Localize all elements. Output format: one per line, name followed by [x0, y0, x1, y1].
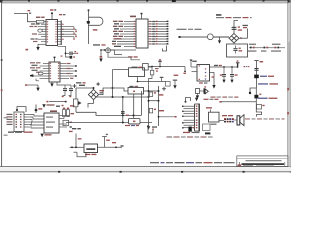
label under J2	[128, 56, 138, 57]
label above bridge	[79, 85, 85, 86]
cap C7 inside U7	[233, 46, 242, 54]
U1 pin numbers	[47, 21, 57, 42]
polarity stub with arrow	[218, 37, 221, 44]
resistor R1	[36, 17, 45, 23]
ICSP pads	[182, 106, 197, 129]
wire to decoupling caps	[57, 82, 71, 85]
microcontroller U2 body	[130, 13, 148, 48]
pullup stub T	[158, 59, 162, 67]
U8 ground branch	[210, 73, 216, 89]
ground hook under J2	[163, 46, 167, 52]
ladder junction dots	[148, 90, 160, 102]
bottom note dashed text	[167, 136, 213, 137]
power input wire with fuse F1	[179, 34, 230, 40]
op-amp feed resistor RV1	[69, 128, 81, 147]
power stub of U1	[50, 9, 56, 19]
sheet background	[0, 0, 291, 173]
DC-DC module B2	[125, 115, 140, 127]
note text top right of U2	[216, 14, 252, 18]
dotted net text mid right	[211, 97, 239, 98]
capacitor C9	[230, 67, 238, 83]
U8 caption	[199, 82, 207, 83]
ground under U1	[26, 44, 47, 50]
ground under ladder	[147, 126, 157, 130]
filter rail wire	[210, 60, 240, 68]
TP label above U4 right	[56, 105, 74, 107]
input arrow into U3	[30, 74, 33, 77]
ICSP bottom caption	[183, 132, 200, 133]
resistor pair R3 R4	[63, 108, 74, 117]
resistor R10	[257, 105, 265, 110]
MCU U1 body	[46, 20, 58, 46]
staircase wire to U2 bottom	[108, 50, 140, 60]
rail outgoing wires	[61, 27, 76, 39]
stub with cap T2	[160, 77, 164, 82]
wires around B1	[66, 88, 159, 123]
buzzer connector pads	[219, 115, 237, 122]
resistor R7	[149, 108, 164, 113]
connector rail right of U1	[60, 21, 62, 46]
U4 right pins upper	[59, 116, 70, 128]
jumper row top right	[248, 44, 285, 52]
U3 left pins	[33, 64, 49, 81]
ladder output branch	[158, 116, 177, 118]
U2 left pin numbers	[134, 21, 135, 47]
connector J3	[14, 112, 24, 132]
header J2 pad dots	[156, 21, 168, 45]
resistor R11	[149, 67, 159, 87]
U1 left pins	[38, 24, 46, 42]
U1 right pins	[58, 22, 61, 45]
diode D2 labels	[240, 25, 248, 39]
plus mark and DC label	[76, 82, 100, 86]
ICSP header rungs	[184, 106, 195, 128]
U6 input wires	[70, 147, 87, 157]
wire net from left border to U1	[14, 14, 37, 22]
input cap C6 on vertical	[232, 21, 242, 34]
J3 pad dots	[16, 114, 22, 128]
U2 left pins	[117, 22, 136, 47]
down arrow into U4	[42, 104, 54, 108]
J3 left labels	[7, 114, 13, 125]
sense network box K1	[143, 64, 152, 71]
sense wire end hook	[183, 67, 186, 74]
aux box U5	[206, 107, 219, 125]
crystal Y2	[38, 72, 43, 75]
junction diamond node	[34, 105, 42, 114]
capacitor C8	[220, 67, 226, 83]
bridge rectifier D1	[88, 90, 98, 100]
rail pad dots	[62, 24, 63, 40]
node label above input wire	[28, 10, 32, 14]
power rail top wires	[76, 88, 128, 95]
buzzer LS1	[237, 115, 244, 126]
U3 left net labels	[30, 62, 40, 73]
end jog wire	[256, 109, 261, 116]
electrolytic cap C10	[188, 127, 194, 132]
vreg chain top	[254, 61, 263, 89]
header J2 double-row bars	[158, 22, 168, 45]
right margin strip	[287, 0, 290, 173]
net wire with endpoint dots	[46, 101, 66, 103]
bottom drawing edge line	[0, 167, 291, 173]
op-amp U6	[84, 144, 98, 155]
K3 junction	[137, 81, 139, 83]
spare box outline	[203, 124, 211, 134]
top window edge bar	[0, 0, 291, 3]
U3 pin numbers	[50, 63, 59, 79]
comparator U8	[190, 60, 210, 82]
U3 right pads and labels	[67, 63, 77, 79]
regulator module B1	[128, 86, 144, 94]
released-under license text line	[150, 162, 235, 163]
protection diode D2 (diamond)	[229, 34, 239, 43]
module box U7	[227, 43, 248, 57]
pull-up R8	[102, 134, 110, 148]
wire under U2	[101, 50, 136, 59]
U2 left net labels	[112, 21, 123, 47]
relay module K3	[129, 67, 145, 77]
ground under C3	[99, 56, 102, 62]
Y stub with ground	[173, 75, 178, 89]
wire R1 to U1	[44, 21, 46, 23]
net label near U1 rail top	[59, 14, 65, 15]
U2 right pins	[148, 22, 158, 45]
barrel jack J4	[74, 88, 82, 112]
cap marks on rail	[121, 111, 125, 114]
wire bundle J3 to U4	[30, 115, 44, 129]
U6 output wire	[98, 142, 124, 148]
hook to test pad	[249, 83, 278, 94]
U2 right pin numbers	[149, 21, 150, 45]
sense bus wire	[148, 66, 185, 68]
sheet border frame	[0, 3, 291, 167]
junction dots under U2	[100, 49, 105, 51]
capacitor C2 blob	[61, 56, 76, 59]
LED D3 blob	[254, 75, 274, 79]
polarized cap C3 (round)	[106, 47, 111, 53]
wire hook bottom middle	[147, 125, 154, 133]
bridge labels	[100, 90, 104, 93]
ground arrow under U3 body	[50, 82, 53, 87]
crystal Y1	[38, 29, 42, 32]
U8 pin dots	[199, 65, 207, 80]
shift register U3 body	[49, 57, 60, 82]
resistor ladder rails	[149, 86, 159, 126]
vreg chain lower	[254, 88, 277, 109]
resistor R6	[149, 92, 163, 96]
capacitor C5	[69, 85, 74, 97]
title block	[237, 156, 288, 167]
wire from D2 to VIN	[239, 29, 248, 39]
ground under U4	[40, 134, 51, 138]
small box K2	[166, 82, 171, 87]
junction dot bridge top	[93, 87, 114, 89]
J3 caption text	[8, 132, 33, 133]
plus symbol node	[162, 87, 166, 91]
dashed net line from buzzer	[245, 118, 285, 119]
ground left under U3	[25, 84, 40, 91]
net label dots	[244, 66, 250, 67]
text receives 5V	[177, 29, 202, 30]
antenna loop symbol	[87, 9, 106, 45]
J3 pin rows	[24, 115, 30, 128]
capacitor C1	[65, 51, 79, 55]
junction dots power	[112, 96, 150, 124]
U1 left net labels	[30, 23, 40, 42]
ICSP header block rails	[195, 104, 200, 132]
stub wire with pad	[219, 101, 256, 103]
plus sign near bridge	[73, 84, 77, 88]
rail wire end pads	[73, 28, 77, 39]
left border tick marks	[1, 59, 8, 136]
phone jack J5	[196, 86, 209, 99]
U3 right pins	[60, 64, 76, 79]
wire curl above J3	[16, 107, 26, 112]
decoupling wire under U1	[58, 46, 71, 57]
IC U4 body	[44, 110, 59, 133]
K3 wires	[113, 70, 166, 88]
ICSP hook and ground	[185, 96, 199, 103]
U6 input junctions	[71, 146, 77, 148]
ICSP label dashes	[204, 99, 219, 100]
J2 net labels	[152, 21, 155, 45]
component box R5	[63, 120, 72, 127]
capacitor C4	[62, 85, 67, 97]
